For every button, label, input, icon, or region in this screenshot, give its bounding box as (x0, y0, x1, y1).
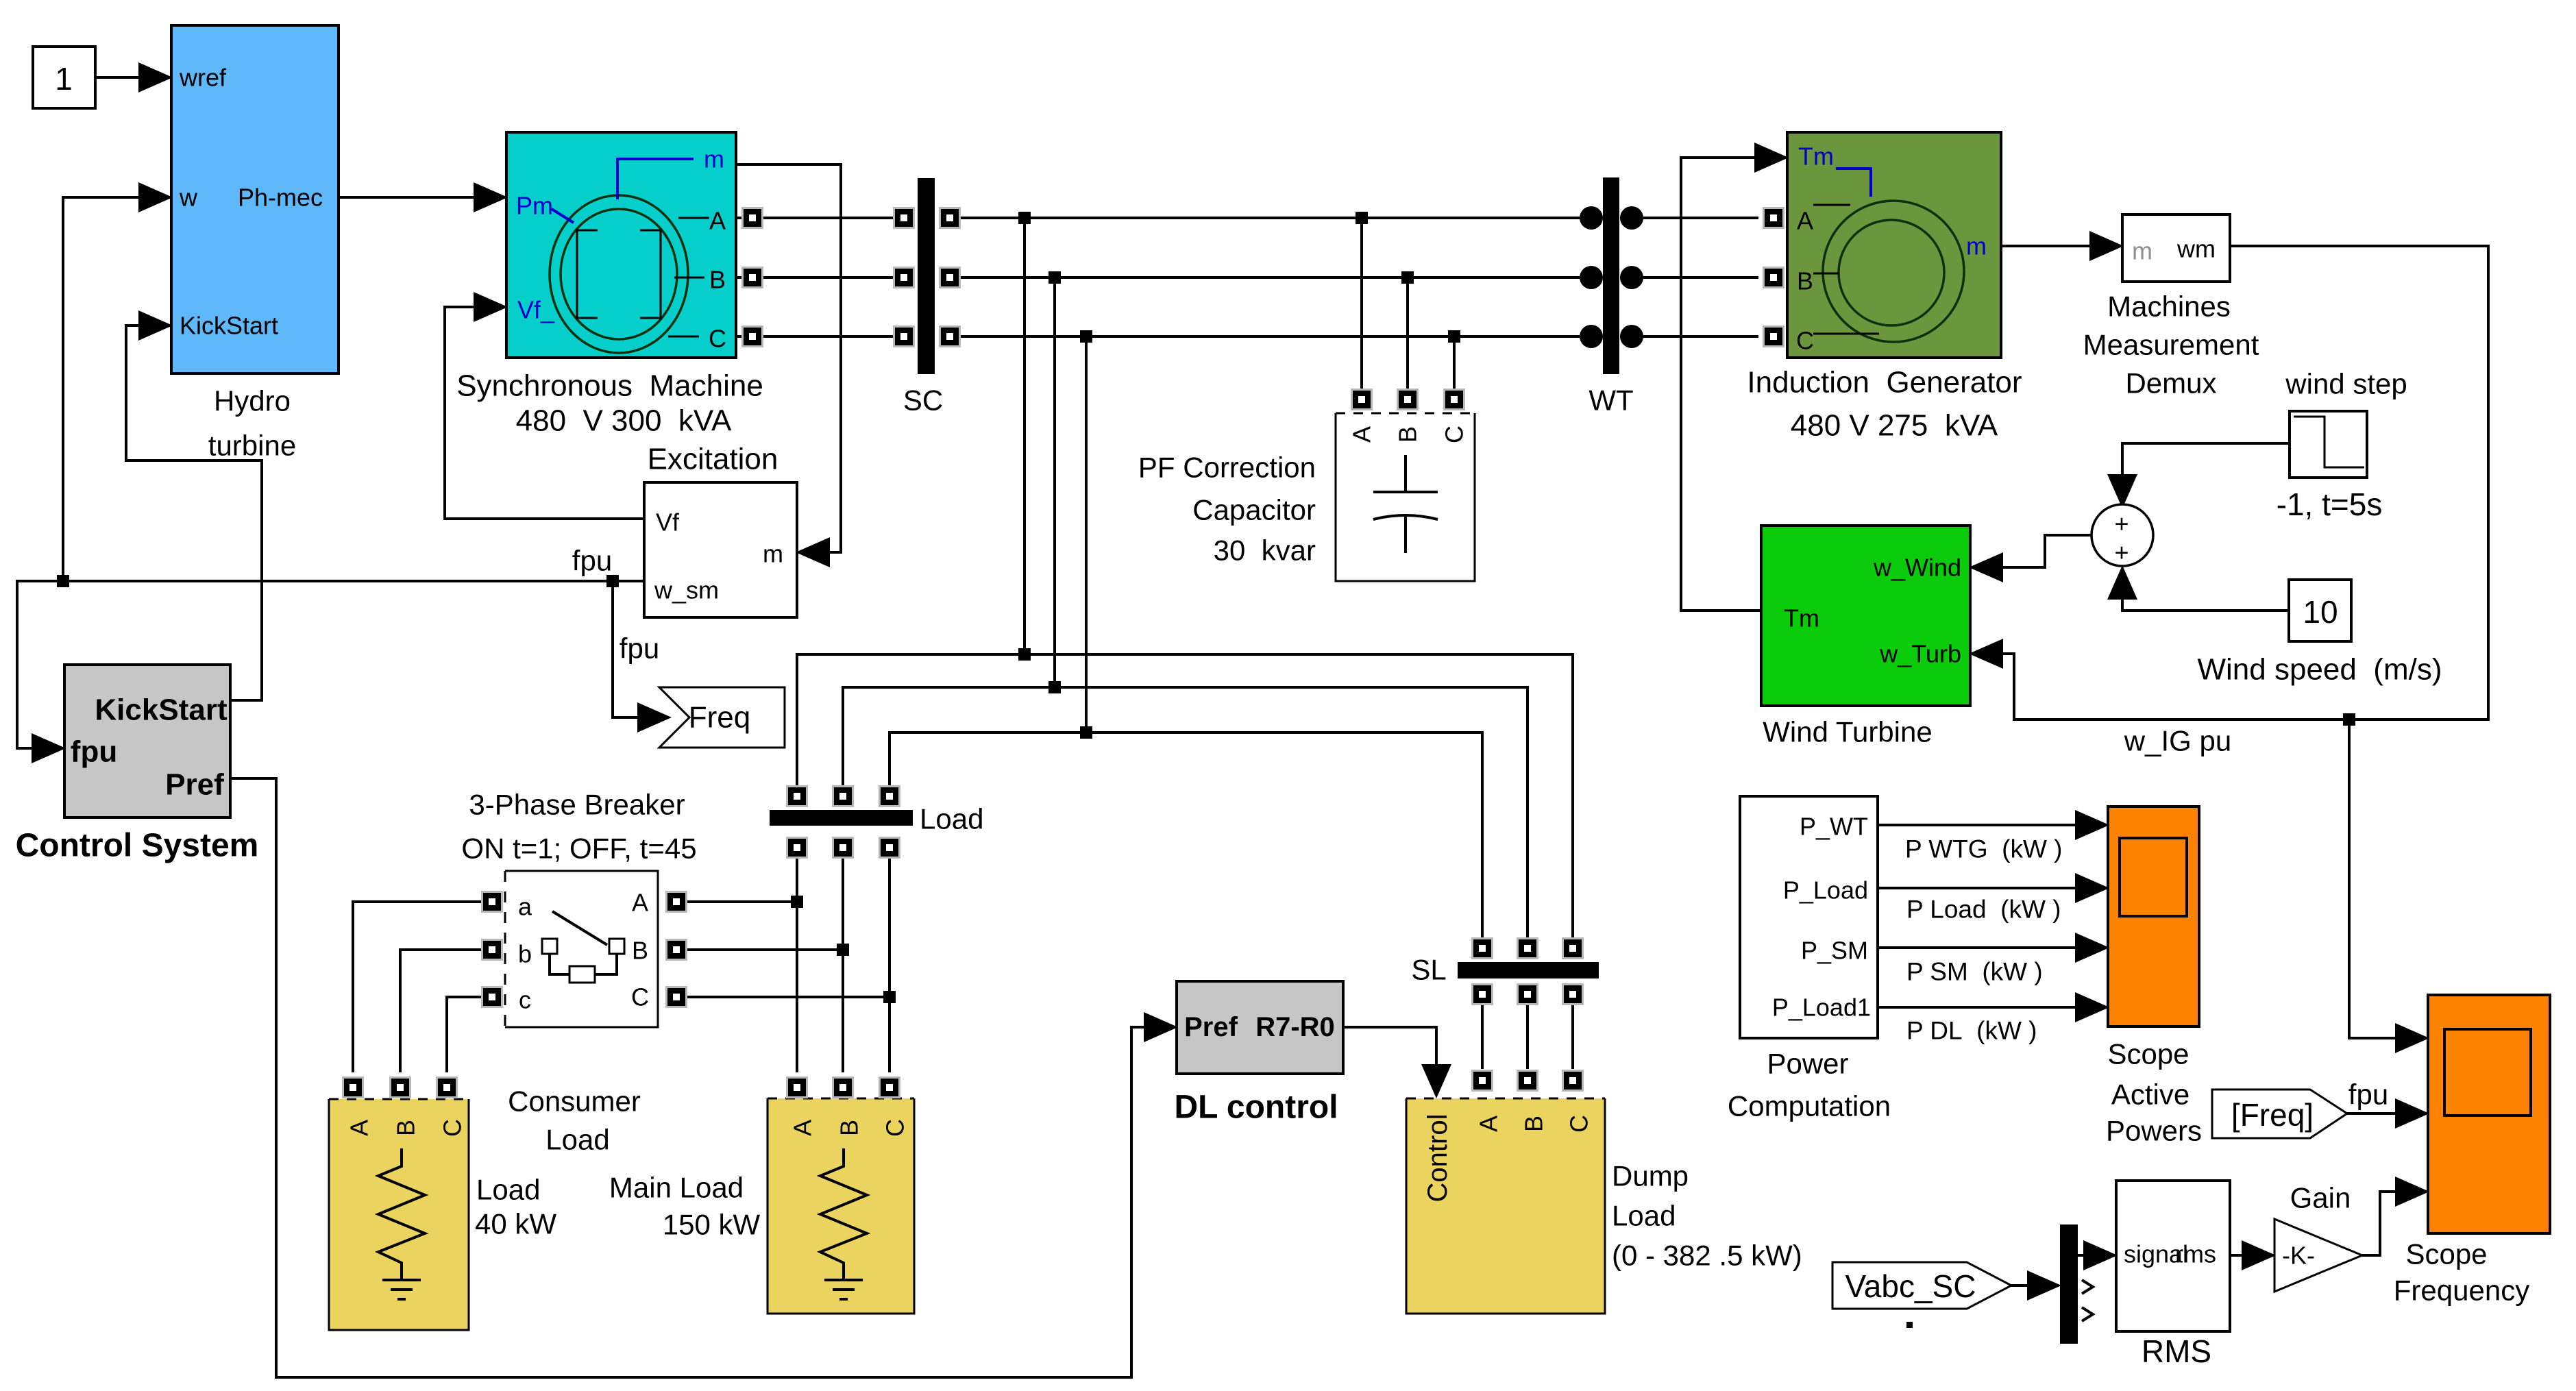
svg-text:P_Load: P_Load (1783, 876, 1868, 904)
wire: SM m output down to Excitation m input (736, 164, 841, 552)
svg-text:Power: Power (1767, 1048, 1848, 1080)
bus bar: SL (horizontal) (1458, 962, 1599, 978)
scope block: Scope Active Powers (2108, 807, 2199, 1026)
svg-text:+: + (2114, 510, 2129, 538)
arrowhead: Hydro w input (138, 182, 173, 212)
bus bar: WT (vertical with breaker dots) (1580, 177, 1643, 374)
wire: breaker c to Consumer Load C (447, 997, 492, 1072)
wire: wm output routed to Wind Turbine w_Turb (w_IG pu net) (2002, 246, 2488, 719)
arrowhead: Scope Frequency input 3 (2395, 1177, 2429, 1207)
wire: phase C feeder down from SC line (1085, 336, 1088, 733)
svg-text:Load: Load (920, 803, 983, 835)
wire: Wind Turbine Tm output up to IG Tm (1681, 158, 1761, 611)
svg-text:Pref: Pref (165, 768, 224, 802)
arrowhead: Gain input (2242, 1240, 2276, 1270)
svg-text:Tm: Tm (1784, 604, 1819, 632)
wire: phase C Load bus down to Main Load (888, 848, 891, 1072)
svg-text:Induction Generator: Induction Generator (1747, 366, 2022, 399)
wire: P SM to scope (1878, 946, 2077, 949)
svg-text:P DL (kW ): P DL (kW ) (1906, 1017, 2037, 1045)
svg-text:480 V 300 kVA: 480 V 300 kVA (516, 404, 732, 438)
svg-text:Measurement: Measurement (2083, 329, 2259, 361)
pin label: SM Pm input (blue) (516, 192, 574, 223)
wire: SL phase C down to Dump Load (1571, 994, 1574, 1069)
svg-text:w_Wind: w_Wind (1873, 554, 1961, 582)
arrowhead: Excitation m input (points left) (796, 537, 830, 567)
pin label: SM Vf input (blue) (517, 296, 555, 324)
svg-text:Load: Load (476, 1174, 540, 1206)
wire: [Freq] to Scope Frequency input 2 (2347, 1112, 2397, 1115)
arrowhead: MMD input (2089, 231, 2124, 261)
goto tag: Freq (659, 687, 785, 748)
label: Consumer Load (508, 1085, 641, 1156)
wire: breaker C output to phase C vertical (676, 996, 890, 998)
wire: phase A SC bus to Induction Generator (950, 217, 1758, 219)
wire: wref constant to Hydro turbine (95, 76, 143, 79)
label: Hydro turbine (208, 385, 296, 462)
svg-text:w: w (179, 184, 198, 212)
wire: w_IG pu down to Scope Frequency input 1 (2349, 719, 2397, 1038)
block: Excitation (AVR) (644, 482, 797, 617)
arrowhead: Freq goto input (637, 702, 672, 733)
wire: SL phase A down to Dump Load (1481, 994, 1484, 1069)
svg-text:Scope: Scope (2405, 1238, 2487, 1270)
svg-text:w_sm: w_sm (654, 576, 719, 604)
pin labels: Power Computation inputs (1772, 813, 1871, 1022)
wire: P WTG to scope (1878, 824, 2077, 826)
block: Wind Turbine (1761, 526, 1970, 706)
label: PF Correction Capacitor 30 kvar (1138, 452, 1316, 567)
svg-text:SL: SL (1411, 954, 1446, 986)
svg-text:-1, t=5s: -1, t=5s (2277, 487, 2383, 522)
svg-text:Load: Load (1612, 1200, 1676, 1232)
svg-text:Hydro: Hydro (214, 385, 291, 417)
wire: SL phase B down to Dump Load (1526, 994, 1529, 1069)
from tag: [Freq] (2212, 1090, 2347, 1138)
svg-text:Vabc_SC: Vabc_SC (1845, 1268, 1976, 1304)
svg-text:P_WT: P_WT (1800, 813, 1868, 841)
ports: PF capacitor pads A B C (1351, 389, 1465, 410)
svg-text:A: A (1348, 426, 1376, 443)
arrowhead: Wind Turbine w_Wind input (points left) (1969, 552, 2003, 582)
block: Machines Measurement Demux (2122, 214, 2230, 282)
label: Synchronous Machine 480 V 300 kVA / Excitation (456, 369, 778, 476)
svg-text:Wind Turbine: Wind Turbine (1763, 716, 1932, 748)
ports: SM terminal pads A B C (741, 207, 763, 347)
svg-text:P WTG (kW ): P WTG (kW ) (1905, 835, 2063, 863)
svg-text:Vf: Vf (656, 508, 680, 537)
stray dot under Vabc_SC tag (1906, 1322, 1913, 1328)
svg-text:WT: WT (1588, 384, 1633, 417)
svg-text:P_Load1: P_Load1 (1772, 994, 1871, 1022)
wire: breaker B output to phase B vertical (676, 948, 843, 951)
svg-text:Main Load: Main Load (609, 1172, 744, 1204)
svg-text:m: m (1966, 232, 1987, 260)
capacitor symbol inside PF block (1373, 455, 1438, 553)
sum block (wind speed + step) (2092, 504, 2153, 567)
svg-text:KickStart: KickStart (180, 312, 278, 340)
svg-text:Machines: Machines (2107, 291, 2231, 323)
junction: fpu to Freq goto (606, 575, 619, 587)
junction: w_IG pu tap to Scope Frequency (2343, 713, 2355, 726)
svg-text:Tm: Tm (1798, 143, 1834, 171)
svg-text:w_IG pu: w_IG pu (2124, 725, 2231, 757)
wire: phase A Load bus down to Main Load (796, 848, 798, 1072)
arrowhead: RMS signal input (2083, 1240, 2118, 1270)
block: wind step (step source -1 at t=5s) (2290, 411, 2367, 478)
block: Hydro turbine (subsystem) (171, 25, 339, 373)
scope block: Scope Frequency (2428, 995, 2550, 1233)
svg-text:B: B (632, 937, 648, 965)
svg-text:A: A (709, 207, 726, 235)
wire: fpu down to Freq goto tag (613, 581, 641, 717)
label: Induction Generator 480 V 275 kVA (1747, 366, 2022, 443)
wire: constant 10 to Sum (2122, 595, 2289, 611)
svg-text:KickStart: KickStart (95, 693, 228, 727)
wire: IG m output to Machines Measurement Demux (2001, 245, 2092, 247)
wire: PF capacitor phase C drop (1453, 336, 1456, 391)
svg-text:a: a (518, 893, 532, 921)
arrowhead: SM Vf input (474, 292, 508, 322)
svg-text:(0 - 382 .5 kW): (0 - 382 .5 kW) (1612, 1240, 1802, 1272)
svg-text:C: C (439, 1119, 467, 1137)
svg-text:3-Phase Breaker: 3-Phase Breaker (469, 789, 685, 821)
ports: breaker output pads A B C (665, 891, 687, 1008)
svg-text:P Load (kW ): P Load (kW ) (1906, 896, 2061, 924)
wire: breaker a to Consumer Load A (353, 902, 492, 1072)
label: Scope Frequency (2394, 1238, 2529, 1307)
svg-text:150 kW: 150 kW (663, 1209, 761, 1241)
junctions: PF capacitor taps on phases A B C (1356, 212, 1460, 343)
svg-text:Demux: Demux (2125, 367, 2216, 399)
ports: Dump Load pads A B C (1471, 1070, 1584, 1092)
pin label: IG Tm input (blue) with signal line (1798, 143, 1871, 197)
wire: Ph-mec output to Synchronous Machine Pm (339, 196, 478, 199)
wire: RMS to Gain (2230, 1254, 2246, 1257)
svg-text:m: m (2132, 237, 2152, 265)
block: Control System (subsystem) (64, 665, 230, 817)
svg-text:C: C (631, 983, 649, 1011)
svg-text:Frequency: Frequency (2394, 1275, 2529, 1307)
wire: phase A SM to SC bus (736, 217, 904, 219)
pin labels: SM phase outputs A B C (709, 207, 726, 353)
svg-text:wind step: wind step (2285, 368, 2407, 400)
wire: Gain to Scope Frequency input 3 (2362, 1192, 2397, 1255)
wire: wind step to Sum (2122, 443, 2290, 480)
arrowhead: Scope Frequency input 1 (2395, 1023, 2429, 1053)
svg-text:P SM (kW ): P SM (kW ) (1906, 958, 2043, 986)
svg-text:C: C (1796, 327, 1814, 355)
svg-text:Control: Control (1423, 1114, 1453, 1203)
wire: DL control R7-R0 to Dump Load Control (1343, 1027, 1436, 1068)
signal labels: P WTG / P Load / P SM / P DL (kW) (1905, 835, 2063, 1045)
svg-text:B: B (1394, 426, 1422, 443)
ports: IG terminal pads A B C (1763, 207, 1784, 347)
svg-text:RMS: RMS (2142, 1333, 2211, 1369)
svg-text:B: B (835, 1120, 863, 1136)
svg-text:P_SM: P_SM (1801, 937, 1868, 965)
from tag: Vabc_SC (1832, 1262, 2011, 1309)
svg-text:Active: Active (2111, 1079, 2189, 1111)
pin labels: PF capacitor A B C (rotated) (1348, 426, 1469, 443)
wire: Control System Pref to DL control (bottom route) (230, 778, 1146, 1377)
svg-text:+: + (2114, 539, 2129, 567)
ports: SL bus top pads (1471, 937, 1584, 959)
pin labels: DL control (Pref, R7-R0) (1184, 1012, 1335, 1042)
svg-text:rms: rms (2175, 1240, 2216, 1268)
wire: phase B Load bus down to Main Load (842, 848, 844, 1072)
svg-text:fpu: fpu (620, 632, 659, 665)
wire: Sum output to Wind Turbine w_Wind (2002, 535, 2092, 567)
wire: Vabc_SC to mux (2011, 1284, 2029, 1287)
svg-text:fpu: fpu (2348, 1079, 2388, 1111)
svg-text:A: A (1475, 1116, 1503, 1132)
svg-text:ON t=1; OFF, t=45: ON t=1; OFF, t=45 (461, 833, 696, 865)
pin labels: IG phase inputs A B C (1796, 207, 1814, 355)
ports: Load bus top pads (786, 785, 900, 807)
wire: phase B SC bus to Induction Generator (950, 276, 1758, 279)
wire: phase B horizontal to Load bus and SL bus (843, 687, 1528, 948)
ground symbol: Consumer Load (382, 1280, 421, 1299)
arrowhead: Scope Frequency input 2 (2395, 1098, 2429, 1129)
ports: SC bus left pads (893, 207, 915, 347)
svg-text:turbine: turbine (208, 430, 296, 462)
svg-text:DL control: DL control (1174, 1090, 1338, 1126)
pin labels: Consumer Load A B C (rotated) (345, 1119, 467, 1137)
label: Scope Active Powers (2106, 1038, 2202, 1147)
svg-text:Freq: Freq (689, 701, 750, 735)
label: Machines Measurement Demux (2083, 291, 2259, 399)
arrowhead: Control System fpu input (32, 733, 66, 763)
wire: P Load to scope (1878, 887, 2077, 889)
svg-text:c: c (519, 986, 531, 1014)
svg-text:fpu: fpu (71, 735, 117, 769)
wire: Excitation Vf output to SM Vf input (445, 307, 644, 519)
wire: PF capacitor phase A drop (1360, 218, 1363, 391)
pin labels: Dump Load Control / A B C (rotated) (1423, 1114, 1593, 1203)
wire: P DL to scope (1878, 1006, 2077, 1009)
block: Power Computation (1740, 796, 1878, 1038)
arrowhead: DL control Pref input (1144, 1012, 1178, 1042)
svg-text:Control System: Control System (16, 828, 259, 864)
resistor symbol: Main Load (820, 1148, 867, 1280)
svg-text:R7-R0: R7-R0 (1255, 1012, 1335, 1042)
svg-text:Excitation: Excitation (648, 443, 778, 476)
svg-text:30 kvar: 30 kvar (1214, 534, 1316, 567)
wire: phase C horizontal to Load bus and SL bus (890, 733, 1482, 948)
wire: fpu net (Excitation w_sm / Hydro w / Control System fpu) (17, 197, 644, 748)
svg-text:B: B (709, 266, 726, 294)
label: 3-Phase Breaker ON t=1; OFF, t=45 (461, 789, 696, 865)
wire: mux to RMS (2078, 1254, 2087, 1257)
block: Dump Load (0 - 382.5 kW) (1406, 1098, 1605, 1314)
svg-text:Load: Load (545, 1124, 609, 1156)
pin labels: Main Load A B C (rotated) (789, 1119, 909, 1137)
arrowhead: mux input (2027, 1270, 2061, 1301)
arrowhead: Wind Turbine w_Turb input (points left) (1969, 639, 2003, 669)
svg-text:B: B (1797, 267, 1813, 295)
block: Induction Generator 480 V 275 kVA (1787, 132, 2001, 358)
svg-text:m: m (763, 540, 783, 568)
wire: Control System KickStart to Hydro turbine KickStart (126, 325, 262, 700)
ports: Consumer Load pads A B C (342, 1076, 458, 1098)
svg-text:[Freq]: [Freq] (2231, 1097, 2314, 1133)
svg-text:A: A (632, 889, 648, 917)
block: Synchronous Machine 480 V 300 kVA (506, 132, 736, 358)
svg-text:fpu: fpu (572, 545, 612, 577)
svg-text:Ph-mec: Ph-mec (238, 184, 323, 212)
wire: phase A horizontal to Load bus and SL bus (797, 654, 1573, 948)
ports: SC bus right pads (939, 207, 961, 347)
wire: phase A feeder down from SC line (1023, 218, 1026, 654)
block: Main Load (150 kW) (768, 1098, 914, 1314)
ground symbol: Main Load (824, 1280, 863, 1299)
svg-text:C: C (881, 1119, 909, 1137)
junctions: breaker outputs joining load verticals (791, 896, 896, 1003)
pin labels: Hydro turbine (wref, w, Ph-mec, KickStart) (179, 64, 323, 340)
arrowhead: Hydro KickStart input (138, 310, 173, 341)
value label: Load 40 kW (475, 1174, 556, 1240)
label: Dump Load (0 - 382.5 kW) (1612, 1160, 1802, 1272)
svg-text:B: B (392, 1120, 420, 1136)
resistor symbol: Consumer Load (378, 1148, 425, 1280)
svg-text:w_Turb: w_Turb (1879, 640, 1961, 668)
ports: Load bus bottom pads (786, 837, 900, 859)
svg-text:m: m (704, 145, 724, 173)
junction: fpu to Hydro w (57, 575, 69, 587)
block: RMS (2116, 1181, 2230, 1331)
block: Consumer Load (40 kW) (329, 1099, 469, 1330)
pin labels: Excitation (Vf, m, w_sm) (654, 508, 783, 604)
label: Main Load 150 kW (609, 1172, 761, 1241)
svg-text:Computation: Computation (1728, 1090, 1891, 1122)
svg-text:A: A (1797, 207, 1813, 235)
pin labels: breaker a b c A B C (518, 889, 649, 1014)
block: PF Correction Capacitor 30 kvar (1336, 413, 1475, 581)
svg-text:Gain: Gain (2290, 1182, 2351, 1214)
svg-text:wref: wref (179, 64, 227, 92)
wire: phase B SM to SC bus (736, 276, 904, 279)
switch symbol inside breaker (542, 911, 624, 983)
svg-text:40 kW: 40 kW (475, 1208, 556, 1240)
block: DL control (1177, 981, 1343, 1074)
svg-text:Consumer: Consumer (508, 1085, 641, 1118)
constant block value 1 (wref source) (33, 47, 95, 108)
svg-text:C: C (1565, 1115, 1593, 1133)
bus bar: Load (horizontal) (770, 810, 913, 826)
svg-text:Pref: Pref (1184, 1012, 1238, 1042)
svg-text:Scope: Scope (2107, 1038, 2189, 1070)
block: 3-Phase Breaker (505, 871, 658, 1027)
arrowhead: Dump Load Control input (points down) (1421, 1064, 1451, 1098)
svg-text:wm: wm (2176, 235, 2216, 263)
bus bar: SC (vertical) (918, 178, 935, 374)
arrowhead: Sum top input (points down) (2107, 474, 2137, 508)
wire: phase B feeder down from SC line (1053, 278, 1056, 687)
svg-text:SC: SC (903, 384, 943, 417)
svg-text:A: A (789, 1120, 817, 1136)
pin labels: Wind Turbine (Tm, w_Wind, w_Turb) (1784, 554, 1961, 668)
gain block: K- (triangle) (2274, 1219, 2362, 1292)
svg-text:Vf_: Vf_ (517, 296, 555, 324)
svg-text:B: B (1520, 1116, 1548, 1132)
ports: Main Load pads A B C (786, 1076, 900, 1098)
svg-text:10: 10 (2303, 594, 2338, 630)
arrowhead: wref input (138, 62, 173, 93)
svg-text:Synchronous Machine: Synchronous Machine (456, 369, 763, 403)
svg-text:1: 1 (55, 61, 73, 97)
svg-text:-K-: -K- (2282, 1242, 2315, 1270)
arrowhead: IG Tm input (1754, 143, 1789, 173)
pin label: SM m output (blue) with signal line (617, 145, 724, 200)
svg-text:Capacitor: Capacitor (1192, 494, 1316, 526)
arrowhead: Sum bottom input (points up) (2107, 565, 2137, 600)
ports: SL bus bottom pads (1471, 983, 1584, 1005)
svg-text:Powers: Powers (2106, 1115, 2202, 1147)
wire: phase C SM to SC bus (736, 335, 904, 338)
svg-text:A: A (345, 1120, 373, 1136)
svg-text:C: C (1440, 426, 1469, 443)
wire: breaker A output to phase A vertical (676, 900, 797, 903)
svg-text:Wind speed (m/s): Wind speed (m/s) (2198, 653, 2442, 687)
svg-text:480 V 275 kVA: 480 V 275 kVA (1791, 409, 1998, 443)
junctions: load-feeder taps on phases A B C (1018, 212, 1092, 343)
svg-text:Pm: Pm (516, 192, 553, 220)
svg-text:b: b (518, 940, 532, 968)
junctions: feeders joining horizontal runs (1018, 648, 1092, 739)
wire: breaker b to Consumer Load B (400, 950, 492, 1072)
arrowheads: Scope Active Powers inputs (2075, 810, 2109, 1022)
constant block value 10 (wind speed) (2289, 580, 2351, 641)
arrowhead: Pm input (474, 182, 508, 212)
pin labels: Control System (KickStart, fpu, Pref) (71, 693, 228, 802)
ports: breaker input pads a b c (481, 891, 503, 1008)
mux: signal selector bar (2060, 1224, 2093, 1344)
svg-text:C: C (709, 325, 726, 353)
label: Power Computation (1728, 1048, 1891, 1122)
wire: phase C SC bus to Induction Generator (950, 335, 1758, 338)
svg-text:Dump: Dump (1612, 1160, 1689, 1192)
svg-text:PF Correction: PF Correction (1138, 452, 1316, 484)
wire: PF capacitor phase B drop (1406, 278, 1409, 391)
